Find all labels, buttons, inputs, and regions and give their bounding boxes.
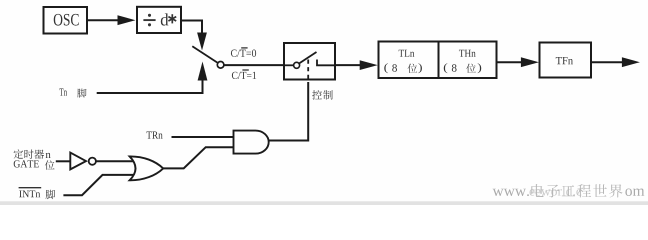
arrowhead interrupt output bbox=[622, 57, 640, 67]
flag TFn box bbox=[540, 43, 592, 78]
INTn overline bbox=[19, 187, 42, 189]
arrowhead down to switch contact C/T=0 bbox=[197, 33, 207, 51]
label C/T=0 bbox=[231, 50, 256, 57]
watermark CJK name bbox=[531, 184, 543, 197]
label C/T=1 bbox=[232, 72, 256, 79]
wire Tn pin bbox=[97, 81, 203, 94]
inverter bubble bbox=[89, 158, 96, 165]
OSC label bbox=[54, 14, 79, 26]
control label bbox=[312, 90, 322, 100]
control box switch circle bbox=[294, 62, 300, 68]
AND gate bbox=[234, 131, 269, 154]
control box contact stub bbox=[317, 60, 335, 66]
jiao of INTn pin bbox=[46, 190, 56, 199]
Tn pin label bbox=[59, 89, 67, 96]
TRn label bbox=[146, 132, 162, 139]
OSC box bbox=[44, 7, 88, 34]
timer n label bbox=[14, 149, 24, 158]
watermark www prefix bbox=[493, 189, 529, 196]
overline on T of C/T=0 bbox=[241, 47, 247, 49]
wire OSC to divider bbox=[87, 19, 119, 21]
OR gate bbox=[130, 156, 164, 180]
THn 8-bit label bbox=[444, 63, 447, 73]
wire TRn to AND gate bbox=[172, 136, 234, 138]
TLn 8-bit label bbox=[384, 63, 387, 73]
GATE bit label bbox=[14, 160, 39, 167]
arrowhead into divider box bbox=[118, 15, 136, 25]
watermark latin echo bbox=[530, 186, 582, 196]
wire THn to TFn bbox=[497, 61, 523, 63]
wire INTn pin to OR gate bbox=[63, 175, 134, 195]
asterisk symbol bbox=[168, 14, 176, 23]
register THn box bbox=[439, 42, 497, 79]
arrowhead into TFn bbox=[521, 57, 539, 67]
INTn pin label bbox=[19, 190, 40, 197]
overline on T of C/T=1 bbox=[242, 69, 248, 71]
d label bbox=[161, 13, 169, 25]
inverter gate bbox=[70, 153, 86, 170]
control box inner wire left bbox=[284, 64, 293, 66]
TLn label bbox=[399, 50, 415, 57]
wire TFn to interrupt bbox=[591, 61, 622, 63]
control box switch arm bbox=[299, 52, 317, 64]
wire OR output to AND gate bbox=[163, 147, 233, 168]
register TLn box bbox=[379, 42, 439, 79]
watermark om suffix bbox=[625, 189, 644, 196]
wire switch to control box bbox=[224, 64, 284, 66]
THn label bbox=[459, 50, 476, 57]
dashed control linkage bbox=[307, 60, 309, 83]
divide-by-d box bbox=[137, 7, 181, 33]
divide symbol bbox=[143, 19, 155, 21]
control box bbox=[284, 43, 335, 80]
wire control to TLn bbox=[335, 64, 361, 66]
watermark band bbox=[0, 201, 648, 205]
wire GATE to inverter bbox=[56, 160, 70, 162]
selector switch pole circle bbox=[217, 62, 224, 69]
arrowhead into TLn bbox=[360, 60, 378, 70]
wire inverter to OR gate bbox=[96, 160, 135, 162]
TFn label bbox=[556, 57, 573, 64]
wire AND output up to control bbox=[269, 82, 308, 141]
selector switch arm bbox=[192, 46, 217, 62]
wire divider to switch bbox=[181, 21, 202, 34]
arrowhead up to switch contact C/T=1 bbox=[198, 62, 208, 81]
